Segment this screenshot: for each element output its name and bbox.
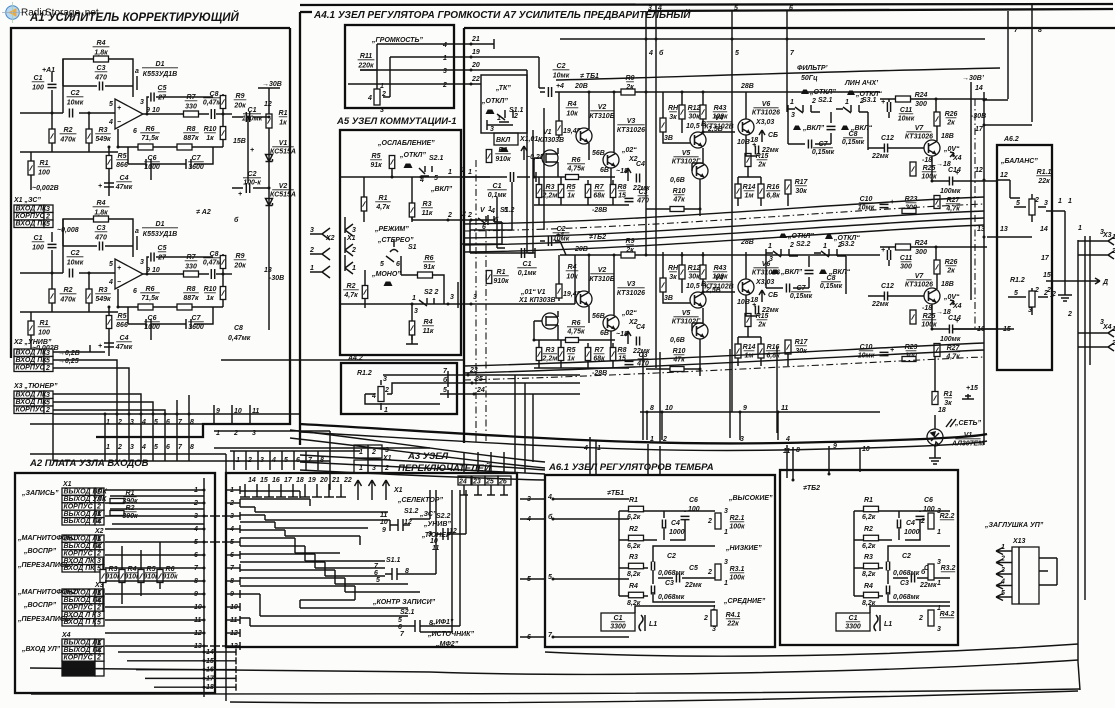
svg-text:2к: 2к (946, 268, 955, 275)
filter wires (788, 112, 868, 150)
svg-text:2: 2 (193, 500, 198, 507)
svg-text:9: 9 (382, 527, 386, 534)
svg-text:+: + (98, 183, 102, 190)
svg-text:3600: 3600 (188, 164, 204, 171)
capacitor C2 10мк (69, 269, 72, 278)
resistor R23 300 (905, 196, 918, 212)
svg-text:R3.1: R3.1 (730, 566, 745, 573)
svg-text:≠ А2: ≠ А2 (196, 209, 211, 216)
filter wires (766, 256, 846, 294)
svg-text:10: 10 (862, 446, 870, 453)
svg-text:R2: R2 (629, 526, 638, 533)
potentiometer R1.2 (365, 375, 440, 410)
resistor R9 20к (222, 254, 224, 274)
svg-text:ВКЛ: ВКЛ (496, 137, 510, 144)
svg-text:„МАГНИТОФОН1”: „МАГНИТОФОН1” (17, 535, 80, 542)
svg-text:X1,01: X1,01 (519, 136, 538, 143)
svg-text:390к: 390к (122, 498, 138, 505)
svg-text:0,15мк: 0,15мк (812, 149, 835, 156)
svg-text:2: 2 (1067, 311, 1072, 318)
inductor L1 (874, 615, 880, 631)
svg-text:А4.1 УЗЕЛ РЕГУЛЯТОРА ГРОМКОСТИ: А4.1 УЗЕЛ РЕГУЛЯТОРА ГРОМКОСТИ А7 УСИЛИТ… (313, 8, 691, 21)
mid-left interconnect wires A1 to A3 (53, 414, 330, 461)
resistor R3 549к (88, 273, 90, 312)
svg-text:8: 8 (1038, 27, 1042, 34)
svg-text:5: 5 (434, 175, 438, 182)
svg-text:С6: С6 (689, 497, 698, 504)
svg-text:330: 330 (185, 264, 197, 271)
svg-text:2: 2 (1046, 287, 1051, 294)
svg-text:R25: R25 (923, 313, 936, 320)
svg-text:18: 18 (938, 407, 946, 414)
svg-text:„ОТКЛ”: „ОТКЛ” (809, 89, 836, 96)
svg-text:16: 16 (272, 477, 280, 484)
svg-text:„ОТКЛ”: „ОТКЛ” (481, 98, 508, 105)
svg-text:ВХОД ЛК: ВХОД ЛК (16, 350, 48, 357)
pot R1.1 output wire (1046, 211, 1072, 301)
svg-text:2к: 2к (625, 247, 634, 254)
svg-text:9: 9 (743, 405, 747, 412)
transistor V2 КТ310Б (576, 128, 592, 144)
svg-text:R15: R15 (756, 313, 769, 320)
svg-text:+: + (881, 99, 885, 106)
capacitor C4 47мк (104, 338, 114, 356)
svg-text:10: 10 (152, 267, 160, 274)
svg-text:18В: 18В (941, 281, 954, 288)
potentiometer R3.2 (928, 564, 934, 580)
svg-text:КОРПУС: КОРПУС (16, 365, 46, 372)
lower bus band line 1 (464, 343, 984, 366)
svg-text:„ВХОД УЛ”: „ВХОД УЛ” (21, 646, 61, 653)
svg-text:С3: С3 (639, 189, 648, 196)
svg-text:S3.2: S3.2 (840, 241, 855, 248)
resistor R24 300 (896, 244, 911, 250)
svg-text:R3: R3 (546, 184, 555, 191)
svg-text:С4: С4 (120, 335, 129, 342)
resistor R9 2к (621, 252, 635, 258)
svg-text:1к: 1к (206, 295, 214, 302)
svg-text:1м: 1м (744, 193, 754, 200)
interconnect pin 8 (188, 437, 190, 461)
capacitor C5 22мк (755, 146, 758, 155)
svg-text:→0,2В: →0,2В (58, 350, 80, 357)
svg-text:СБ: СБ (768, 292, 778, 299)
svg-text:21: 21 (471, 36, 480, 43)
svg-text:887к: 887к (183, 295, 199, 302)
resistor R16 6,8к (758, 344, 764, 358)
svg-text:„БАЛАНС”: „БАЛАНС” (1000, 158, 1038, 165)
resistor R1 100 (30, 312, 32, 345)
capacitor C10 10мк (858, 196, 875, 212)
svg-text:1: 1 (1068, 198, 1072, 205)
A7 preamp top frame lines (300, 11, 312, 13)
resistor R4 10к (558, 92, 560, 138)
svg-text:→30В’: →30В’ (962, 75, 985, 82)
svg-text:4,7к: 4,7к (375, 204, 390, 211)
left dashdot verticals (476, 160, 486, 443)
svg-text:1: 1 (712, 605, 716, 612)
resistor R1 910к ch1 (486, 150, 492, 163)
svg-text:R43: R43 (714, 105, 727, 112)
resistor R23 300 (905, 344, 918, 360)
resistor R2 470к (51, 113, 53, 152)
svg-text:22: 22 (471, 76, 480, 83)
svg-text:24: 24 (458, 479, 467, 486)
svg-text:„ВОСПР”: „ВОСПР” (23, 602, 57, 609)
svg-text:3: 3 (414, 308, 418, 315)
svg-text:R14: R14 (743, 344, 756, 351)
svg-text:R5: R5 (567, 347, 576, 354)
svg-text:КОРПУС: КОРПУС (64, 654, 94, 661)
svg-text:10мк: 10мк (67, 260, 84, 267)
svg-text:АЛ307ЕМ: АЛ307ЕМ (951, 441, 984, 448)
feedback resistor R4 1,8к (63, 59, 133, 113)
svg-text:„01“: „01“ (520, 289, 536, 296)
A3 X1 arrows (355, 480, 362, 500)
svg-text:910к: 910к (493, 278, 509, 285)
svg-text:≠ТБ2: ≠ТБ2 (803, 485, 820, 492)
transistor V1 КП303В FET (542, 150, 558, 166)
svg-text:R24: R24 (915, 92, 928, 99)
svg-text:2: 2 (1000, 556, 1005, 563)
svg-text:А2 ПЛАТА УЗЛА ВХОДОВ: А2 ПЛАТА УЗЛА ВХОДОВ (29, 458, 149, 469)
svg-text:S2.1: S2.1 (400, 609, 415, 616)
svg-text:100мк: 100мк (242, 116, 263, 123)
svg-text:12: 12 (1000, 172, 1008, 179)
svg-text:~0,008: ~0,008 (57, 227, 79, 234)
svg-text:R3: R3 (423, 201, 432, 208)
capacitor C8 0,15мк (827, 126, 836, 129)
svg-text:28В: 28В (740, 83, 754, 90)
resistor R26 2к (934, 112, 940, 126)
svg-text:R3: R3 (109, 566, 118, 573)
svg-text:R6: R6 (146, 286, 155, 293)
svg-text:КОРПУС: КОРПУС (64, 550, 94, 557)
svg-text:24: 24 (476, 387, 485, 394)
svg-text:3: 3 (769, 256, 773, 263)
potentiometer R1.1 (1029, 199, 1035, 215)
resistor R1 4,7к (363, 177, 365, 222)
svg-text:3: 3 (490, 126, 494, 133)
pin arrow X1 3 (345, 217, 353, 236)
A3 top pin 1 (233, 451, 235, 470)
svg-text:5: 5 (154, 419, 158, 426)
svg-text:1: 1 (488, 206, 492, 213)
svg-text:3: 3 (712, 626, 716, 633)
svg-text:+: + (752, 302, 756, 309)
svg-text:100: 100 (38, 170, 50, 177)
svg-text:R1: R1 (379, 195, 388, 202)
pin arrow X1 1 (345, 255, 353, 274)
svg-text:R14: R14 (743, 184, 756, 191)
svg-text:13: 13 (264, 267, 272, 274)
svg-text:1: 1 (106, 419, 110, 426)
svg-text:+: + (238, 191, 242, 198)
block A3 rails (204, 473, 226, 701)
capacitor C4 47мк (104, 178, 114, 196)
svg-text:3: 3 (130, 419, 134, 426)
resistor R14 1м (735, 344, 741, 358)
svg-text:2: 2 (920, 518, 925, 525)
svg-text:887к: 887к (183, 135, 199, 142)
A7 preamp outer frame left verticals (299, 12, 301, 445)
transistor V7 КТ31026 (924, 288, 940, 304)
svg-text:2к: 2к (757, 162, 766, 169)
svg-text:1: 1 (359, 465, 363, 472)
svg-text:1: 1 (823, 243, 827, 250)
svg-text:2: 2 (467, 212, 472, 219)
preamp bottom pin 8 (646, 411, 649, 414)
svg-text:10к: 10к (566, 274, 578, 281)
svg-text:R8: R8 (618, 184, 627, 191)
svg-text:3: 3 (1100, 229, 1104, 236)
psu zener V1 КС515А (266, 155, 273, 162)
svg-text:1000: 1000 (904, 529, 920, 536)
svg-text:11: 11 (252, 408, 259, 415)
svg-text:3: 3 (1001, 567, 1005, 574)
svg-text:С5: С5 (689, 565, 698, 572)
svg-text:С2: С2 (71, 250, 80, 257)
svg-text:R1.2: R1.2 (357, 370, 372, 377)
preamp bottom border (300, 424, 987, 443)
bus band between channels dash-dot (464, 204, 984, 231)
A6.1 right block pin verticals (787, 445, 860, 480)
svg-text:18В: 18В (941, 133, 954, 140)
svg-text:2: 2 (45, 407, 50, 414)
svg-text:А4.2: А4.2 (347, 355, 363, 362)
potentiometer R4.2 (928, 610, 934, 626)
svg-text:R1.2: R1.2 (1010, 277, 1025, 284)
svg-text:14: 14 (1040, 226, 1048, 233)
resistor R5 1к (558, 348, 564, 361)
svg-text:R1: R1 (40, 320, 49, 327)
supply corner wires (984, 5, 1032, 125)
svg-text:1000: 1000 (669, 529, 685, 536)
svg-text:„ГРОМКОСТЬ”: „ГРОМКОСТЬ” (371, 37, 423, 44)
svg-text:3: 3 (791, 112, 795, 119)
capacitor C10 10мк (858, 344, 875, 360)
svg-text:10: 10 (234, 408, 242, 415)
svg-text:1: 1 (724, 580, 728, 587)
capacitor C6 1000 (128, 307, 157, 340)
svg-text:С8: С8 (210, 91, 219, 98)
svg-text:50Гц: 50Гц (801, 75, 818, 82)
svg-text:А5 УЗЕЛ КОММУТАЦИИ-1: А5 УЗЕЛ КОММУТАЦИИ-1 (336, 116, 457, 127)
svg-text:1: 1 (443, 55, 447, 62)
R3 rail y220 (412, 215, 494, 225)
X2 X3 fan wires to pin comb (53, 352, 129, 414)
svg-text:1000: 1000 (144, 164, 160, 171)
svg-text:71,5к: 71,5к (141, 135, 159, 142)
A3 top pin 4 (269, 451, 271, 470)
svg-text:+: + (955, 170, 959, 177)
svg-text:3: 3 (140, 99, 144, 106)
svg-text:19: 19 (472, 49, 480, 56)
svg-text:14: 14 (248, 477, 256, 484)
svg-text:100: 100 (923, 506, 935, 513)
svg-text:R2: R2 (864, 526, 873, 533)
svg-text:А1 УСИЛИТЕЛЬ КОРРЕКТИРУЮЩИЙ: А1 УСИЛИТЕЛЬ КОРРЕКТИРУЮЩИЙ (29, 11, 240, 24)
svg-text:20к: 20к (233, 103, 246, 110)
front wires (534, 158, 629, 205)
svg-text:2: 2 (662, 436, 667, 443)
svg-text:20: 20 (319, 477, 328, 484)
svg-text:11: 11 (194, 617, 201, 624)
svg-text:R2: R2 (64, 287, 73, 294)
A2 lower wires to pins 14-18 (118, 651, 204, 653)
lamp wires (929, 415, 941, 464)
svg-text:3: 3 (140, 259, 144, 266)
svg-text:6: 6 (396, 261, 400, 268)
svg-text:С11: С11 (900, 255, 912, 262)
interconnect pin 1 (104, 437, 106, 461)
capacitor C1 3300 (601, 613, 635, 631)
resistor R17 30к (785, 340, 791, 354)
node a arrow (136, 236, 138, 250)
resistor R5 1к (558, 185, 564, 198)
svg-text:91к: 91к (423, 264, 435, 271)
svg-text:11: 11 (781, 405, 788, 412)
svg-text:1: 1 (597, 445, 601, 452)
svg-text:1: 1 (461, 167, 465, 174)
switch S2.2 ОТКЛ (779, 234, 787, 239)
svg-text:R3.2: R3.2 (941, 565, 956, 572)
svg-text:R9: R9 (236, 253, 245, 260)
resistor R26 2к (934, 260, 940, 274)
svg-text:„ИФ1”: „ИФ1” (431, 619, 454, 626)
svg-text:20: 20 (471, 62, 480, 69)
channel2 C1 0,1мк (505, 248, 535, 258)
svg-text:10мк: 10мк (67, 100, 84, 107)
svg-text:2: 2 (707, 569, 712, 576)
interconnect pin 3 (128, 437, 130, 461)
svg-text:0,6В: 0,6В (670, 337, 685, 344)
svg-text:R43: R43 (714, 265, 727, 272)
svg-text:„РЕЖИМ”: „РЕЖИМ” (374, 226, 409, 233)
svg-text:2: 2 (117, 444, 122, 451)
svg-text:10: 10 (152, 107, 160, 114)
svg-text:К553УД1В: К553УД1В (143, 231, 177, 238)
svg-text:R23: R23 (905, 344, 918, 351)
svg-text:1: 1 (106, 444, 110, 451)
svg-text:+: + (881, 247, 885, 254)
svg-text:V6: V6 (762, 101, 771, 108)
resistor R43 100к (700, 265, 706, 279)
svg-text:5: 5 (376, 577, 380, 584)
svg-text:1: 1 (497, 115, 501, 122)
resistor R6 4,75к (566, 320, 585, 336)
switch S2.2 ВКЛ (771, 270, 779, 275)
svg-text:470к: 470к (59, 137, 76, 144)
resistor R15 2к (745, 314, 751, 327)
svg-text:С1: С1 (34, 235, 43, 242)
pin 5 tick (152, 414, 154, 437)
svg-text:„СРЕДНИЕ”: „СРЕДНИЕ” (723, 598, 766, 605)
svg-text:2,2м: 2,2м (542, 356, 559, 363)
svg-text:X13: X13 (1012, 538, 1026, 545)
watermark logo RadioStorage.net (2, 2, 99, 23)
svg-text:R7: R7 (595, 184, 605, 191)
svg-text:А6.1 УЗЕЛ РЕГУЛЯТОРОВ ТЕМБРА: А6.1 УЗЕЛ РЕГУЛЯТОРОВ ТЕМБРА (548, 462, 714, 473)
svg-text:V7: V7 (915, 273, 925, 280)
svg-text:2: 2 (371, 449, 376, 456)
svg-text:R23: R23 (905, 196, 918, 203)
svg-text:RН: RН (668, 265, 679, 272)
svg-text:С1: С1 (493, 183, 502, 190)
svg-text:RН: RН (668, 105, 679, 112)
resistor R1 390к (110, 499, 124, 504)
svg-text:4: 4 (96, 519, 101, 526)
interconnect long wires (30, 424, 226, 473)
svg-text:8: 8 (796, 447, 800, 454)
svg-text:С4: С4 (906, 520, 915, 527)
svg-text:0,1мк: 0,1мк (518, 270, 537, 277)
svg-text:2: 2 (703, 615, 708, 622)
capacitor C6 1000 (128, 147, 157, 180)
svg-text:6: 6 (133, 288, 137, 295)
svg-text:470к: 470к (59, 297, 76, 304)
S2.1 switch A3 (408, 620, 428, 632)
svg-text:С3: С3 (665, 580, 674, 587)
A4.2 rows extended (560, 375, 580, 394)
svg-text:4: 4 (141, 419, 146, 426)
svg-text:+15: +15 (966, 385, 978, 392)
resistor R6 71,5к (138, 304, 153, 310)
transistor V1 КП303В FET (542, 313, 558, 329)
svg-text:ЛИН АЧХ’: ЛИН АЧХ’ (844, 80, 879, 87)
svg-text:V5: V5 (682, 150, 691, 157)
svg-text:2: 2 (859, 98, 864, 105)
svg-text:„ОТКЛ”: „ОТКЛ” (399, 152, 426, 159)
svg-text:R1: R1 (499, 147, 508, 154)
svg-text:5: 5 (1016, 200, 1020, 207)
transistor V2 КТ310Б (576, 291, 592, 307)
svg-text:X1 КП303В: X1 КП303В (518, 297, 556, 304)
svg-text:6: 6 (166, 419, 170, 426)
bus band line 1 (464, 211, 984, 238)
svg-text:1: 1 (352, 265, 356, 272)
svg-text:1: 1 (845, 99, 849, 106)
resistor R7 68к (585, 348, 591, 361)
transistor V4 КТ3102Б (690, 132, 706, 148)
svg-text:300: 300 (900, 264, 912, 271)
svg-text:С3: С3 (97, 225, 106, 232)
svg-text:КС515А: КС515А (270, 149, 296, 156)
S1.2 switch (390, 519, 410, 531)
svg-text:21: 21 (331, 477, 340, 484)
svg-text:„ЗАПИСЬ”: „ЗАПИСЬ” (21, 490, 59, 497)
svg-text:3: 3 (1044, 200, 1048, 207)
resistor R5 866 (108, 307, 110, 338)
resistor R4 11к (411, 304, 413, 340)
svg-text:3к: 3к (669, 114, 677, 121)
svg-text:6,2к: 6,2к (862, 514, 876, 521)
svg-text:S2.1: S2.1 (818, 97, 833, 104)
resistor R12 30к (679, 105, 685, 119)
svg-text:КОРПУС: КОРПУС (64, 604, 94, 611)
svg-text:R17: R17 (795, 339, 809, 346)
svg-text:+: + (250, 147, 254, 154)
svg-text:910к: 910к (495, 156, 511, 163)
transistor V6 КТ31026 (738, 119, 754, 135)
svg-text:X3,03: X3,03 (755, 119, 774, 126)
lower bus dashdot (464, 357, 984, 380)
svg-text:4: 4 (442, 42, 447, 49)
resistor R12 30к (679, 265, 685, 279)
R1 3к near lamp (932, 392, 938, 405)
svg-text:6: 6 (398, 624, 402, 631)
svg-text:3: 3 (380, 107, 384, 114)
